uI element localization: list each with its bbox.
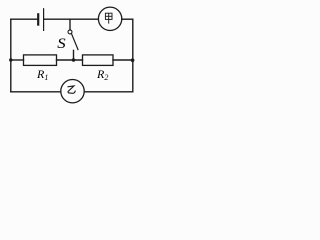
switch S: open blade	[71, 34, 78, 50]
glyph 乙 inside bottom meter	[68, 86, 76, 93]
node: junction on left wire	[9, 58, 12, 61]
wire R1 to R2 (through junction)	[57, 59, 83, 61]
wire top-left segment	[11, 18, 37, 20]
wire right vertical	[132, 19, 134, 92]
svg-text:R1: R1	[36, 67, 48, 82]
node: junction on right wire	[131, 58, 135, 62]
svg-text:R2: R2	[96, 67, 108, 82]
node: R1-R2 junction	[72, 58, 76, 62]
glyph 甲 inside top meter	[105, 13, 112, 23]
wire bottom-right segment	[84, 91, 133, 93]
battery cell	[38, 9, 43, 31]
ammeter 乙 (circle)	[61, 80, 84, 103]
meter 甲 (circle)	[98, 7, 121, 30]
wire middle-row left (left wire to R1)	[11, 59, 24, 61]
wire top-middle segment (battery to meter)	[44, 18, 98, 20]
resistor R1	[24, 55, 57, 66]
switch S: fixed contact to junction	[73, 50, 75, 60]
wire bottom-left segment	[11, 91, 61, 93]
wire left vertical	[10, 19, 12, 92]
wire middle-row right (R2 to right wire)	[113, 59, 133, 61]
switch S: stub from top wire	[69, 19, 71, 30]
resistor R2	[83, 55, 114, 66]
svg-text:S: S	[57, 36, 65, 52]
switch S: pivot circle	[68, 30, 72, 34]
wire top-right segment (meter to right wire)	[122, 18, 133, 20]
